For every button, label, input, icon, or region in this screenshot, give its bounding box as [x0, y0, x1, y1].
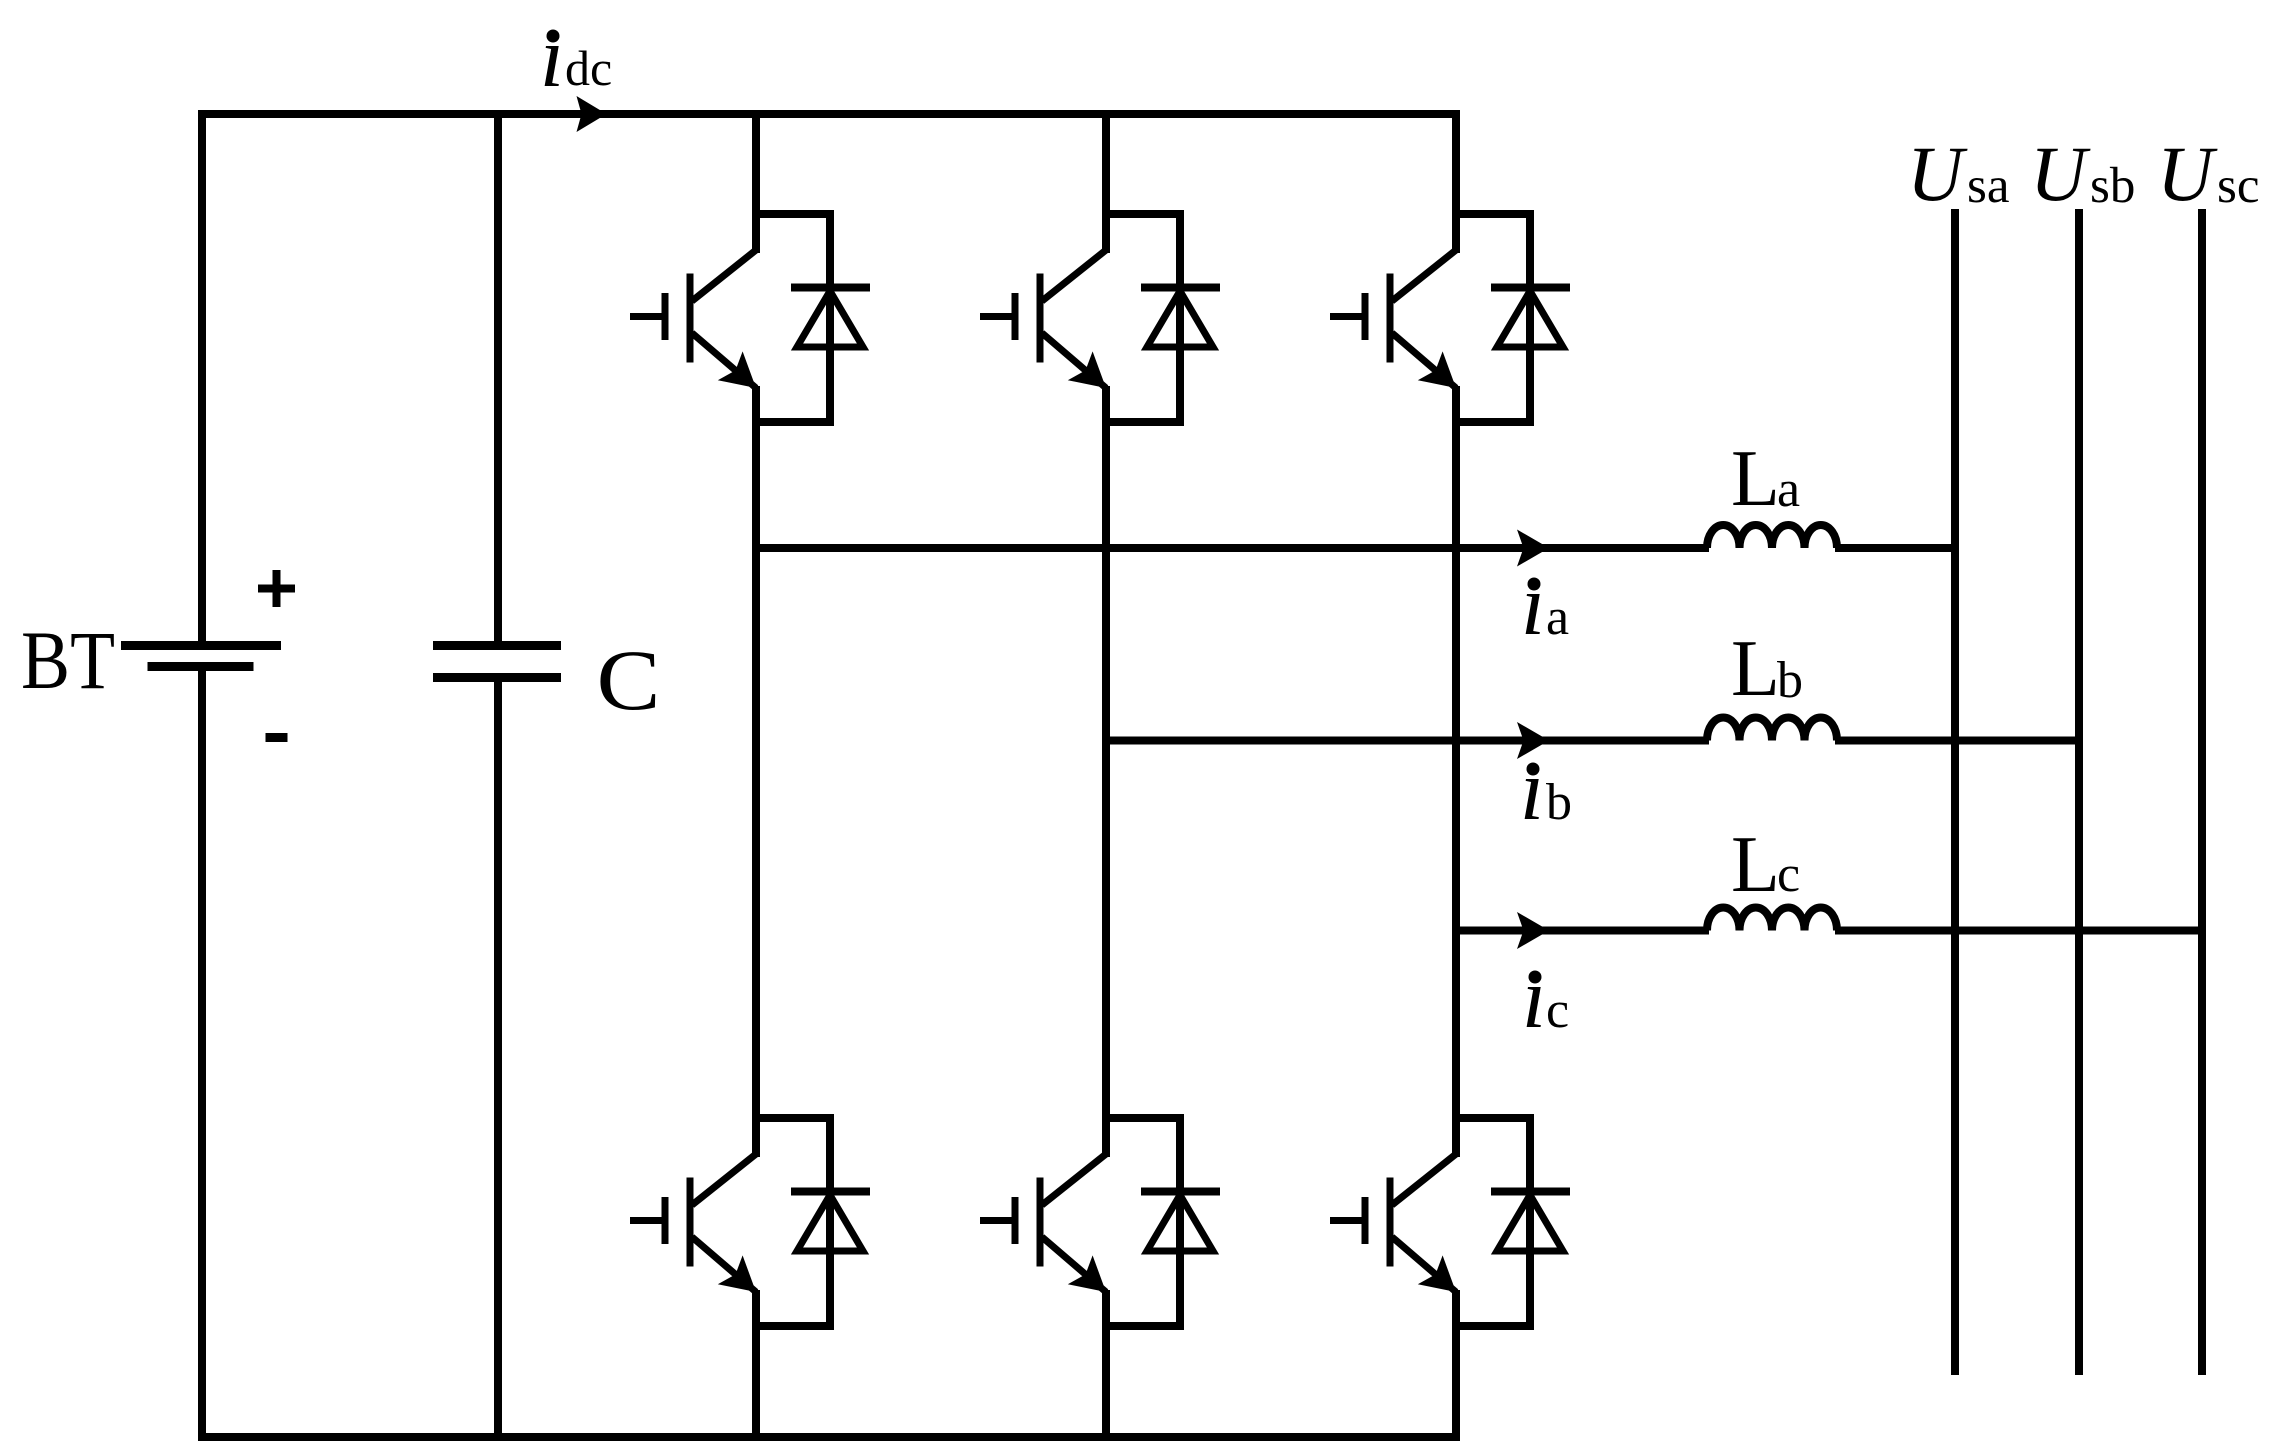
label battery + polarity — [258, 570, 295, 607]
svg-text:sc: sc — [2217, 158, 2259, 214]
transistor V4 (lower IGBT leg 1) — [630, 1154, 756, 1326]
wire grid phase source Usb line — [2075, 209, 2083, 1375]
wire leg 1 midsection — [752, 422, 760, 1157]
label battery - polarity — [266, 733, 288, 742]
wire emitter branch lower cell leg 3 — [1452, 1322, 1534, 1330]
wire leg 2 to bottom rail — [1102, 1326, 1110, 1437]
diode VD6 (lower freewheel diode leg 3) — [1491, 1118, 1570, 1326]
wire grid phase source Usc line — [2198, 209, 2206, 1375]
diode VD2 (upper freewheel diode leg 2) — [1141, 214, 1220, 422]
svg-text:ı: ı — [540, 8, 564, 105]
battery BT — [121, 646, 281, 667]
label La — [1731, 435, 1800, 523]
wire emitter branch lower cell leg 1 — [752, 1322, 834, 1330]
svg-text:c: c — [1546, 982, 1569, 1039]
svg-text:sa: sa — [1967, 158, 2009, 214]
wire phase c from inductor to grid — [1835, 927, 2202, 935]
wire leg 1 from top rail to upper IGBT — [752, 114, 760, 253]
wire collector branch lower cell leg 1 — [752, 1114, 834, 1122]
wire battery branch lower — [198, 671, 206, 1441]
wire phase b from inductor to grid — [1835, 737, 2079, 745]
svg-text:L: L — [1731, 435, 1780, 523]
svg-text:U: U — [2030, 130, 2091, 217]
label i_b — [1520, 741, 1572, 838]
wire collector branch upper cell leg 3 — [1452, 210, 1534, 218]
svg-text:L: L — [1731, 821, 1780, 909]
capacitor C — [433, 646, 561, 678]
wire leg 2 from top rail to upper IGBT — [1102, 114, 1110, 253]
label BT — [21, 614, 115, 706]
transistor V2 (upper IGBT leg 2) — [980, 250, 1106, 422]
current arrow i_dc — [577, 96, 607, 132]
label Usa — [1907, 130, 2009, 217]
inductor Lc — [1707, 908, 1837, 931]
diode VD3 (upper freewheel diode leg 3) — [1491, 214, 1570, 422]
svg-text:sb: sb — [2090, 158, 2135, 214]
transistor V5 (lower IGBT leg 2) — [980, 1154, 1106, 1326]
svg-text:U: U — [2157, 130, 2218, 217]
wire capacitor branch lower — [494, 682, 502, 1441]
label i_c — [1522, 949, 1569, 1046]
label i_a — [1521, 556, 1569, 653]
svg-text:ı: ı — [1521, 556, 1545, 653]
wire phase a from inductor to grid — [1835, 544, 1955, 552]
wire collector branch upper cell leg 2 — [1102, 210, 1184, 218]
svg-text:U: U — [1907, 130, 1968, 217]
diode VD5 (lower freewheel diode leg 2) — [1141, 1118, 1220, 1326]
wire leg 3 from top rail to upper IGBT — [1452, 114, 1460, 253]
svg-text:BT: BT — [21, 614, 115, 706]
svg-text:a: a — [1777, 461, 1800, 518]
label Lb — [1731, 625, 1803, 713]
svg-text:ı: ı — [1522, 949, 1546, 1046]
svg-text:dc: dc — [565, 40, 612, 96]
inductor Lb — [1707, 718, 1837, 741]
wire phase a from leg 1 to inductor — [756, 544, 1709, 552]
transistor V1 (upper IGBT leg 1) — [630, 250, 756, 422]
transistor V3 (upper IGBT leg 3) — [1330, 250, 1456, 422]
label Lc — [1731, 821, 1800, 909]
diode VD1 (upper freewheel diode leg 1) — [791, 214, 870, 422]
wire leg 1 to bottom rail — [752, 1326, 760, 1437]
wire leg 3 to bottom rail — [1452, 1326, 1460, 1437]
label i_dc — [540, 8, 612, 105]
label C — [597, 632, 661, 728]
svg-text:C: C — [597, 632, 661, 728]
wire collector branch lower cell leg 3 — [1452, 1114, 1534, 1122]
svg-text:c: c — [1777, 846, 1800, 903]
transistor V6 (lower IGBT leg 3) — [1330, 1154, 1456, 1326]
diode VD4 (lower freewheel diode leg 1) — [791, 1118, 870, 1326]
wire leg 3 midsection — [1452, 422, 1460, 1157]
current arrow i_a — [1517, 530, 1549, 567]
wire emitter branch upper cell leg 3 — [1452, 418, 1534, 426]
wire phase b from leg 2 to inductor — [1106, 737, 1709, 745]
wire battery branch upper — [198, 110, 206, 642]
wire leg 2 midsection — [1102, 422, 1110, 1157]
current arrow i_b — [1517, 722, 1549, 759]
current arrow i_c — [1517, 912, 1549, 949]
wire emitter branch lower cell leg 2 — [1102, 1322, 1184, 1330]
inductor La — [1707, 525, 1837, 548]
label Usb — [2030, 130, 2135, 217]
wire capacitor branch upper — [494, 110, 502, 642]
wire negative DC rail (bottom) — [198, 1433, 1460, 1441]
label Usc — [2157, 130, 2259, 217]
wire collector branch upper cell leg 1 — [752, 210, 834, 218]
wire phase c from leg 3 to inductor — [1456, 927, 1709, 935]
svg-text:L: L — [1731, 625, 1780, 713]
wire grid phase source Usa line — [1951, 209, 1959, 1375]
wire positive DC rail (top) — [198, 110, 1460, 118]
wire collector branch lower cell leg 2 — [1102, 1114, 1184, 1122]
svg-text:b: b — [1777, 652, 1803, 709]
svg-text:b: b — [1546, 774, 1572, 831]
svg-text:a: a — [1546, 589, 1569, 646]
svg-text:ı: ı — [1520, 741, 1544, 838]
wire emitter branch upper cell leg 1 — [752, 418, 834, 426]
wire emitter branch upper cell leg 2 — [1102, 418, 1184, 426]
